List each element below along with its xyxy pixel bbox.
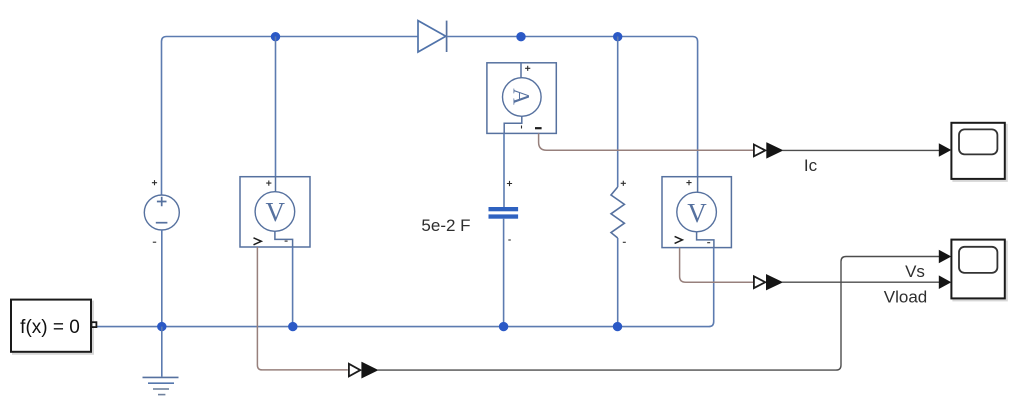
label - of voltmeter U3: [707, 242, 710, 244]
voltmeter U3 block box: [662, 177, 731, 248]
voltmeter U2 block box: [240, 177, 310, 247]
voltmeter U3 internal wire bottom: [697, 232, 714, 248]
label - of resistor R1: [623, 241, 626, 243]
label tick of ammeter U1: [521, 126, 523, 129]
wire capacitor C1 bottom to bottom bus: [503, 219, 505, 327]
label - of capacitor C1: [508, 239, 511, 241]
capacitor C1: [489, 207, 519, 219]
svg-text:Vload: Vload: [884, 288, 927, 307]
node junction above voltmeter U2: [271, 32, 280, 41]
wire resistor R1 bottom to bottom bus: [617, 238, 619, 327]
node junction resistor bottom: [613, 322, 622, 331]
node junction capacitor bottom: [499, 322, 508, 331]
filled arrow Vs: [362, 363, 378, 378]
signal wire black Vload to scope2 port2: [782, 281, 939, 283]
voltmeter U3 circle: [677, 192, 717, 232]
wire source V1 bottom to ground bus: [161, 230, 163, 327]
voltmeter U2 internal wire top: [275, 177, 277, 192]
signal wire black Ic to scope1: [782, 149, 939, 151]
svg-text:A: A: [509, 88, 534, 105]
PS-Simulink converter open arrow Vs: [349, 364, 360, 377]
PS-Simulink converter open arrow Vload: [754, 276, 765, 288]
arrowhead into scope1: [939, 143, 952, 157]
label + of voltmeter U2: [266, 181, 271, 186]
label + of capacitor C1: [507, 181, 512, 186]
ammeter U1 internal wire bottom: [504, 116, 522, 133]
svg-text:Ic: Ic: [804, 156, 818, 175]
label + of ammeter U1: [525, 66, 530, 71]
scope2 block: [951, 240, 1004, 299]
node junction voltmeter U2 minus: [288, 322, 297, 331]
label - of source V1: [153, 241, 156, 243]
scope1 block: [951, 123, 1004, 179]
wire from top rail down to voltmeter U2: [275, 37, 277, 177]
signal wire brown from voltmeter U3 out port down and right: [680, 248, 754, 283]
solver block f(x)=0 shadow: [13, 302, 93, 354]
arrowhead into scope2 port1: [939, 250, 952, 264]
ammeter U1 block box: [487, 63, 556, 134]
svg-text:V: V: [266, 197, 286, 227]
scope2 screen: [959, 247, 997, 273]
scope1 shadow: [953, 125, 1006, 181]
solver block f(x)=0: [11, 300, 91, 352]
wire voltmeter U2 minus to bottom bus: [292, 247, 294, 327]
wire top rail right segment from diode cathode to voltmeter U3 top: [447, 37, 698, 178]
node junction above ammeter U1: [516, 32, 525, 41]
svg-text:V: V: [687, 198, 707, 228]
wire top rail down to resistor R1: [617, 37, 619, 188]
arrowhead into scope2 port2: [939, 275, 952, 289]
label + of resistor R1: [621, 181, 626, 186]
solver block port square: [92, 322, 97, 327]
scope2 shadow: [953, 242, 1006, 301]
filled arrow Vload: [767, 275, 783, 290]
PS-Simulink converter open arrow Ic: [754, 145, 765, 157]
node junction source bottom / ground: [157, 322, 166, 331]
ammeter U1 internal wire top: [520, 63, 522, 78]
ground symbol: [143, 327, 179, 395]
node junction above resistor R1: [613, 32, 622, 41]
wire top rail left segment from source top to diode anode: [162, 37, 419, 196]
label + of source V1: [152, 180, 157, 185]
voltmeter U2 circle: [255, 192, 295, 232]
signal wire black Vs to scope2 port1: [377, 257, 939, 371]
label - of ammeter U1: [535, 127, 542, 129]
signal wire brown from voltmeter U2 out port down and right: [257, 247, 347, 370]
voltmeter U2 internal wire bottom: [275, 231, 293, 247]
bottom bus wire from solver port to voltmeter U3 minus: [96, 248, 713, 327]
wire ammeter U1 bottom to capacitor C1 top: [503, 133, 505, 207]
diode D1: [418, 21, 447, 52]
svg-text:5e-2 F: 5e-2 F: [421, 216, 470, 235]
ammeter U1 circle: [503, 78, 542, 117]
resistor R1: [611, 187, 624, 238]
port marker > of voltmeter U3: [675, 236, 683, 243]
DC voltage source V1: [144, 195, 179, 230]
voltmeter U3 internal wire top: [697, 177, 699, 193]
label + of voltmeter U3: [686, 180, 691, 185]
port marker > of voltmeter U2: [254, 238, 262, 245]
svg-text:Vs: Vs: [905, 262, 925, 281]
label - of voltmeter U2: [285, 240, 288, 242]
filled arrow Ic: [767, 143, 783, 158]
scope1 screen: [959, 129, 997, 154]
svg-text:f(x) = 0: f(x) = 0: [20, 317, 80, 338]
signal wire brown from ammeter U1 to Ic converter: [539, 133, 754, 150]
